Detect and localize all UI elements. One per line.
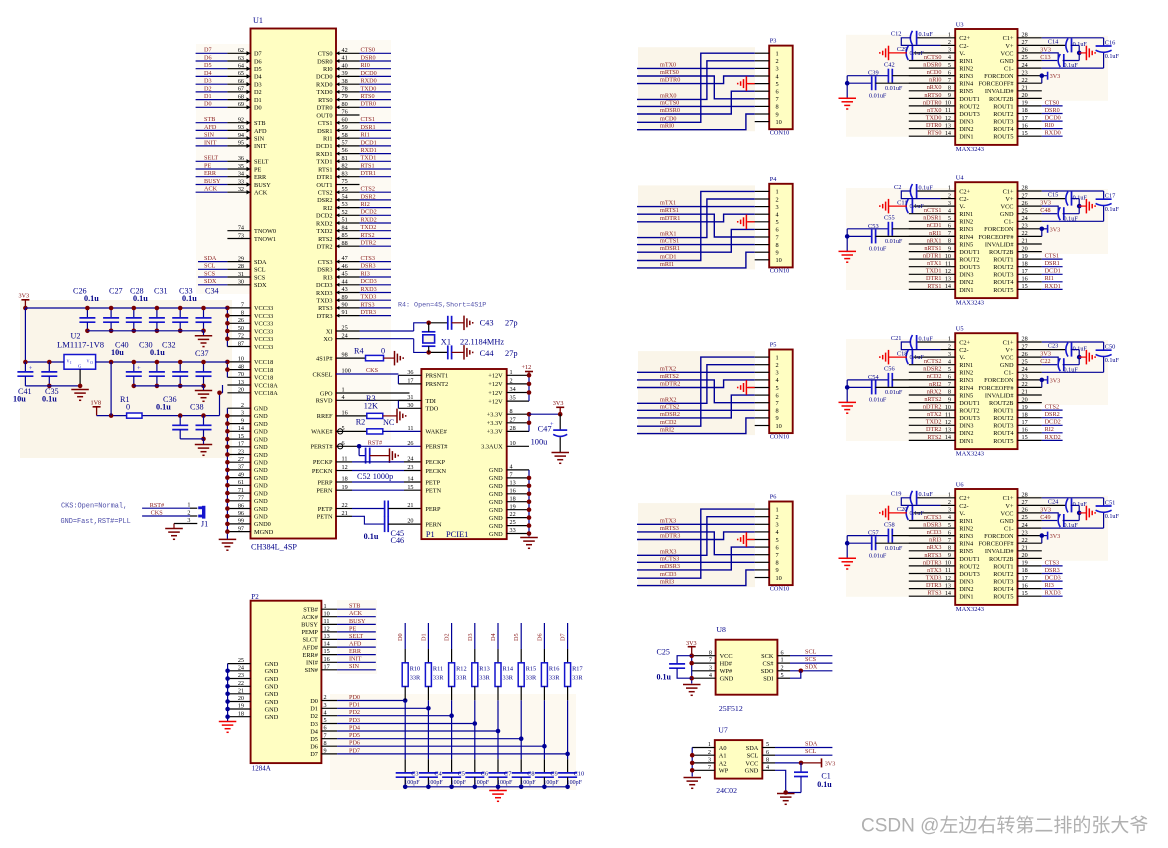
wire TDI-TDO tie [397, 401, 399, 409]
wire J1 pin2 / net CKS [142, 509, 197, 516]
svg-text:0.1uF: 0.1uF [910, 354, 925, 361]
capacitor C3 100pF [396, 759, 421, 789]
wire U3 C1 loop [1018, 38, 1104, 68]
svg-text:1: 1 [324, 603, 327, 610]
capacitor C17 0.1uF [1096, 193, 1120, 214]
capacitor C49 0.1uF [1018, 514, 1080, 529]
P6 pin 4 [755, 529, 780, 536]
IC U3 MAX3243 body [955, 21, 1017, 153]
P1 pin 24 PECKP [407, 456, 445, 467]
capacitor C47 100u [531, 414, 568, 452]
svg-text:21: 21 [238, 687, 244, 694]
svg-text:7: 7 [324, 732, 327, 739]
svg-text:3: 3 [708, 757, 711, 764]
svg-text:10: 10 [776, 575, 782, 582]
svg-text:ROUT2B: ROUT2B [989, 400, 1014, 407]
svg-text:DTR0: DTR0 [361, 101, 376, 108]
wire mRTS2 to P5.7 / net mRTS2 [637, 373, 755, 403]
wire U4 vcc node [1077, 199, 1087, 214]
svg-text:DTR0: DTR0 [317, 105, 333, 112]
svg-text:14: 14 [238, 425, 244, 432]
svg-text:D2: D2 [204, 85, 212, 92]
svg-text:3V3: 3V3 [1050, 226, 1061, 233]
P6 pin 7 [755, 552, 779, 559]
svg-text:RTS0: RTS0 [318, 97, 332, 104]
svg-text:mDSR1: mDSR1 [660, 245, 680, 252]
svg-text:PETP: PETP [425, 479, 440, 486]
wire +3.3V bus [527, 412, 563, 431]
U5 pin 3 wire / net DCD2 [1018, 419, 1063, 426]
svg-text:0.1uF: 0.1uF [1073, 194, 1088, 201]
svg-text:C18: C18 [897, 350, 908, 357]
svg-text:28: 28 [238, 263, 244, 270]
svg-text:C8: C8 [527, 770, 534, 777]
U6 pin 4 wire / net DSR3 [1018, 567, 1063, 574]
svg-text:INIT: INIT [349, 656, 362, 663]
svg-text:23: 23 [238, 448, 244, 455]
ground C11 [880, 199, 889, 214]
svg-text:C58: C58 [884, 521, 895, 528]
P5 pin 7 [755, 400, 779, 407]
power +12 [522, 364, 534, 375]
svg-text:D5: D5 [254, 66, 262, 73]
svg-text:D2: D2 [254, 89, 262, 96]
svg-text:4: 4 [709, 672, 712, 679]
svg-text:16: 16 [510, 487, 516, 494]
U1 pin 60 CTS1 / net CTS1 [318, 116, 391, 127]
U1 pin 24 XO [323, 332, 413, 343]
svg-text:1: 1 [510, 369, 513, 376]
U3 right pin numbers [1022, 32, 1028, 137]
svg-text:GND: GND [489, 467, 503, 474]
svg-text:0.1u: 0.1u [42, 395, 57, 404]
svg-text:SIN: SIN [204, 132, 215, 139]
svg-text:60: 60 [342, 116, 348, 123]
svg-text:RI2: RI2 [1045, 426, 1054, 433]
capacitor C51 0.1uF [1096, 500, 1120, 521]
svg-text:3: 3 [776, 204, 779, 211]
svg-text:C47: C47 [538, 425, 552, 434]
net label D6 vertical [536, 633, 543, 641]
svg-text:1: 1 [776, 506, 779, 513]
capacitor C50 0.1uF [1096, 344, 1120, 365]
svg-text:D4: D4 [254, 74, 263, 81]
svg-text:0.1uF: 0.1uF [1105, 53, 1120, 60]
U5 left net labels [923, 358, 942, 441]
U1 pin 14 GND [227, 425, 268, 436]
P3 pin 4 [755, 73, 780, 80]
svg-text:10: 10 [510, 440, 516, 447]
svg-text:3V3: 3V3 [686, 640, 697, 647]
svg-text:VCC: VCC [1001, 50, 1014, 57]
svg-text:SDA: SDA [746, 745, 759, 752]
capacitor C20 0.1uF [889, 506, 956, 520]
svg-text:nRTS1: nRTS1 [924, 245, 941, 252]
svg-text:U7: U7 [718, 725, 728, 734]
ground C37 rail [195, 391, 212, 402]
svg-text:C57: C57 [868, 530, 879, 537]
svg-text:C1-: C1- [1004, 219, 1013, 226]
svg-text:X1: X1 [441, 337, 451, 346]
ground U7 C1 [777, 794, 795, 805]
svg-text:C2-: C2- [959, 43, 968, 50]
svg-text:CKSEL: CKSEL [313, 371, 333, 378]
svg-text:27p: 27p [505, 349, 518, 358]
P5 pin 8 [755, 408, 779, 415]
svg-text:37: 37 [238, 464, 244, 471]
svg-text:33R: 33R [410, 675, 421, 682]
U1 pin 7 VCC33 [227, 302, 273, 313]
svg-text:DSR0: DSR0 [361, 54, 376, 61]
P4 pin 2 [755, 196, 779, 203]
svg-text:ACK: ACK [349, 610, 363, 617]
svg-text:J1: J1 [201, 520, 208, 529]
svg-text:DOUT3: DOUT3 [959, 111, 980, 118]
svg-text:CKS: CKS [366, 367, 379, 374]
svg-text:SDA: SDA [204, 255, 217, 262]
P1 pin 20 PERN [407, 518, 442, 529]
U1 pin 19 PERN [316, 484, 352, 495]
svg-text:3V3: 3V3 [1050, 533, 1061, 540]
U8 pin2 SDO / net SDX [777, 664, 832, 674]
svg-text:83: 83 [342, 170, 348, 177]
svg-text:C56: C56 [884, 366, 895, 373]
wire RST# / net RST# [357, 439, 422, 448]
svg-text:ROUT2: ROUT2 [959, 103, 979, 110]
svg-text:mTX1: mTX1 [660, 200, 676, 207]
svg-text:30: 30 [238, 279, 244, 286]
svg-text:FORCEON: FORCEON [984, 533, 1014, 540]
svg-text:2: 2 [776, 514, 779, 521]
P1 pin 36 PRSNT1 [398, 369, 448, 380]
U1 pin 41 DSR0 / net DSR0 [317, 54, 391, 65]
capacitor C36 0.1u [156, 395, 188, 439]
svg-text:8: 8 [776, 408, 779, 415]
svg-text:DOUT3: DOUT3 [959, 571, 980, 578]
svg-text:C49: C49 [1040, 514, 1050, 521]
svg-text:GND: GND [254, 444, 268, 451]
P5 pin 5 [748, 385, 779, 392]
U1 pin 100 CKSEL / net CKS [313, 367, 399, 378]
U1 pin 44 DCD3 / net DCD3 [316, 278, 391, 289]
U6 left pin wires [909, 521, 955, 597]
wire mRTS3 to P6.7 / net mRTS3 [637, 525, 755, 555]
P2 pin 5 D3 / net PD3 [310, 717, 477, 728]
svg-text:GND: GND [745, 768, 759, 775]
svg-text:ACK: ACK [254, 190, 268, 197]
P1 pin 28 +3.3V [487, 425, 529, 436]
svg-text:75: 75 [342, 178, 348, 185]
svg-text:GND: GND [254, 506, 268, 513]
svg-text:C9: C9 [550, 770, 557, 777]
svg-text:C24: C24 [1048, 498, 1059, 505]
wire C3-C10 gnd rail [405, 787, 567, 791]
svg-text:72: 72 [238, 333, 244, 340]
svg-text:TNOW1: TNOW1 [254, 236, 276, 243]
svg-text:VCC: VCC [1001, 355, 1014, 362]
U1 pin 15 GND [227, 433, 268, 444]
ground C42/C39 [839, 98, 857, 109]
P3 pin 1 [755, 51, 779, 58]
svg-text:1: 1 [781, 657, 784, 664]
svg-text:nTX3: nTX3 [927, 567, 941, 574]
U1 pin 29 SDA / net SDA [198, 255, 267, 266]
svg-text:P4: P4 [770, 176, 778, 183]
P1 pin 23 PECKN [407, 464, 446, 475]
svg-text:87: 87 [238, 340, 244, 347]
svg-text:23: 23 [238, 672, 244, 679]
svg-text:34: 34 [238, 171, 244, 178]
svg-text:ROUT1: ROUT1 [993, 408, 1013, 415]
P4 pin 8 [755, 242, 779, 249]
svg-text:RIN2: RIN2 [959, 370, 973, 377]
svg-text:PECKN: PECKN [425, 468, 446, 475]
svg-text:34: 34 [510, 386, 516, 393]
svg-text:U3: U3 [956, 21, 964, 28]
svg-text:27: 27 [510, 416, 516, 423]
capacitor C35 0.1u [41, 362, 58, 404]
svg-text:C54: C54 [868, 374, 879, 381]
U1 pin 49 GND [227, 471, 268, 482]
wire mDTR3 to P6.4 / net mDTR3 [637, 532, 755, 540]
svg-text:19: 19 [342, 484, 348, 491]
ground C38 rail [195, 445, 212, 456]
svg-text:GND: GND [720, 676, 734, 683]
svg-text:RI0: RI0 [323, 66, 332, 73]
svg-text:C1+: C1+ [1003, 35, 1014, 42]
svg-text:nRTS3: nRTS3 [924, 552, 941, 559]
U1 pin 46 DSR3 / net DSR3 [317, 263, 391, 274]
connector P1 PCIE1 body [421, 369, 506, 539]
U3 pin 3 wire / net DCD0 [1018, 115, 1063, 122]
P1 pin 22 GND [489, 511, 529, 522]
svg-text:2: 2 [241, 402, 244, 409]
svg-text:6: 6 [776, 544, 779, 551]
ground C55/C53 [839, 251, 857, 262]
svg-text:ROUT3: ROUT3 [993, 423, 1013, 430]
svg-text:R12: R12 [456, 666, 467, 673]
svg-text:DCD2: DCD2 [316, 213, 332, 220]
svg-text:OUT1: OUT1 [316, 182, 332, 189]
svg-text:TXD0: TXD0 [316, 89, 332, 96]
capacitor C58 0.01uF [847, 521, 955, 552]
svg-text:19: 19 [510, 503, 516, 510]
capacitor C25 0.1u [657, 648, 692, 682]
svg-text:DOUT3: DOUT3 [959, 264, 980, 271]
svg-text:CTS1: CTS1 [361, 116, 375, 123]
svg-text:PECKP: PECKP [425, 459, 445, 466]
svg-text:INVALID#: INVALID# [985, 88, 1014, 95]
U6 pin 5 wire / net CTS3 [1018, 559, 1063, 566]
wire XI node [414, 321, 448, 332]
svg-text:90: 90 [342, 302, 348, 309]
U1 pin 57 DCD1 / net DCD1 [316, 139, 391, 150]
svg-text:D1: D1 [310, 706, 318, 713]
U1 pin 6 PERST# [310, 440, 359, 451]
svg-text:RTS0: RTS0 [927, 130, 941, 137]
svg-text:0.1u: 0.1u [657, 672, 672, 681]
svg-text:1V8: 1V8 [91, 399, 102, 406]
capacitor C56 0.01uF [847, 366, 955, 397]
svg-text:RXD0: RXD0 [361, 78, 377, 85]
svg-text:100pF: 100pF [567, 780, 583, 786]
svg-text:ROUT2: ROUT2 [993, 111, 1013, 118]
svg-text:GND: GND [254, 467, 268, 474]
wire mRX2 to P5.2 / net mRX2 [637, 365, 755, 404]
svg-text:13: 13 [324, 633, 330, 640]
svg-text:D5: D5 [310, 736, 318, 743]
svg-text:D1: D1 [254, 97, 262, 104]
svg-text:16: 16 [342, 410, 348, 417]
regulator U2 LM1117-1V8 [57, 331, 104, 369]
svg-text:MAX3243: MAX3243 [956, 450, 984, 457]
svg-text:INIT: INIT [254, 143, 267, 150]
svg-text:0.1u: 0.1u [817, 780, 832, 789]
U1 pin 42 CTS0 / net CTS0 [318, 47, 391, 58]
svg-text:P1: P1 [426, 530, 435, 539]
power 3V3 top-left [19, 292, 30, 310]
svg-text:C50: C50 [1105, 344, 1116, 351]
ground U4 right [1086, 199, 1095, 214]
svg-text:PERST#: PERST# [425, 444, 448, 451]
svg-text:CKS: CKS [151, 510, 164, 517]
U1 pin 16 RREF [317, 410, 367, 421]
svg-text:nCTS3: nCTS3 [924, 514, 942, 521]
svg-text:SCS: SCS [254, 274, 266, 281]
U1 pin 79 RTS0 / net RTS0 [318, 93, 391, 104]
U3 left net labels [923, 54, 942, 137]
svg-text:RXD3: RXD3 [316, 290, 332, 297]
svg-text:nRX0: nRX0 [927, 84, 942, 91]
svg-text:D7: D7 [560, 633, 567, 641]
svg-text:nDTR1: nDTR1 [923, 253, 942, 260]
resistor R17 33R [565, 623, 584, 759]
U5 pin 1 wire / net RXD2 [1018, 434, 1063, 441]
svg-text:91: 91 [342, 309, 348, 316]
svg-text:GND: GND [489, 483, 503, 490]
svg-text:INI#: INI# [306, 660, 319, 667]
svg-text:ROUT5: ROUT5 [993, 438, 1013, 445]
P2 pin 22 GND [228, 680, 279, 691]
svg-text:C32: C32 [162, 340, 176, 349]
svg-text:FORCEON: FORCEON [984, 226, 1014, 233]
svg-text:33R: 33R [479, 675, 490, 682]
svg-text:C13: C13 [1040, 54, 1050, 61]
wire mTX2 to P5.3 / net mTX2 [637, 365, 755, 372]
svg-text:C51: C51 [1105, 500, 1116, 507]
svg-text:7: 7 [708, 764, 711, 771]
U1 pin 32 ACK / net ACK [196, 186, 268, 197]
svg-text:C2+: C2+ [959, 495, 970, 502]
U1 pin 66 D3 / net D3 [196, 78, 262, 89]
wire mRX0 to P3.2 / net mRX0 [637, 61, 755, 100]
svg-text:SDA: SDA [254, 259, 267, 266]
svg-text:FORCEOFF#: FORCEOFF# [979, 81, 1015, 88]
svg-text:mCTS1: mCTS1 [660, 238, 679, 245]
svg-text:GND: GND [254, 436, 268, 443]
P1 pin 16 GND [489, 487, 529, 498]
U1 pin 51 RXD2 / net RXD2 [316, 216, 391, 227]
svg-text:48: 48 [238, 363, 244, 370]
svg-text:D5: D5 [204, 62, 212, 69]
svg-text:33R: 33R [456, 675, 467, 682]
svg-text:C7: C7 [504, 770, 511, 777]
svg-text:GND: GND [254, 483, 268, 490]
svg-text:33R: 33R [526, 675, 537, 682]
svg-text:D4: D4 [310, 728, 319, 735]
svg-text:0.1u: 0.1u [150, 348, 165, 357]
svg-text:9: 9 [776, 567, 779, 574]
wire mCTS2 to P5.8 / net mCTS2 [637, 403, 755, 410]
svg-text:mDTR1: mDTR1 [660, 215, 680, 222]
svg-text:DSR3: DSR3 [361, 263, 376, 270]
svg-text:PERP: PERP [317, 479, 333, 486]
P2 pin 9 D7 / net PD7 [310, 747, 570, 758]
net label D4 vertical [490, 633, 497, 641]
P6 pin 10 [755, 575, 782, 582]
svg-text:RIN5: RIN5 [959, 88, 973, 95]
U7 pin6 SCL / net SCL [762, 748, 832, 756]
wire mTX0 to P3.3 / net mTX0 [637, 61, 755, 68]
P1 pin 17 PRSNT2 [398, 378, 448, 389]
capacitor C19 0.1uF [891, 491, 955, 506]
svg-text:0.1uF: 0.1uF [1064, 366, 1079, 373]
svg-text:ERR: ERR [349, 648, 362, 655]
svg-text:DTR1: DTR1 [926, 275, 941, 282]
svg-text:10: 10 [776, 423, 782, 430]
svg-text:5: 5 [776, 81, 779, 88]
U1 pin 94 SIN / net SIN [196, 132, 265, 143]
wire VCC18A link [217, 385, 222, 416]
ground U3 right [1086, 46, 1095, 61]
P5 pin 3 [755, 370, 779, 377]
capacitor C4 100pF [419, 759, 444, 789]
svg-text:C1+: C1+ [1003, 188, 1014, 195]
svg-text:DIN2: DIN2 [959, 279, 973, 286]
power 3V3 U8 [686, 640, 697, 656]
ground U6 right [1086, 506, 1095, 521]
svg-text:26: 26 [238, 317, 244, 324]
svg-text:C15: C15 [1048, 192, 1059, 199]
svg-text:2: 2 [776, 196, 779, 203]
svg-text:RREF: RREF [317, 413, 333, 420]
svg-text:PERST#: PERST# [310, 444, 333, 451]
U1 pin 55 CTS2 / net CTS2 [318, 186, 391, 197]
svg-text:C2+: C2+ [959, 188, 970, 195]
svg-text:9: 9 [776, 415, 779, 422]
svg-text:VCC18A: VCC18A [254, 390, 278, 397]
svg-text:+: + [29, 365, 33, 372]
wire mTX3 to P6.3 / net mTX3 [637, 517, 755, 524]
wire mDSR1 to P4.6 / net mDSR1 [637, 229, 755, 252]
capacitor C28 0.1u [126, 306, 142, 333]
svg-text:0.01uF: 0.01uF [869, 397, 887, 404]
svg-text:+12V: +12V [488, 381, 503, 388]
svg-text:CTS1: CTS1 [1045, 253, 1059, 260]
net label D5 vertical [513, 633, 520, 641]
svg-text:PD0: PD0 [349, 694, 360, 701]
svg-text:D0: D0 [254, 105, 262, 112]
svg-text:mRX1: mRX1 [660, 231, 677, 238]
svg-text:ROUT3: ROUT3 [993, 119, 1013, 126]
svg-text:V+: V+ [1005, 43, 1014, 50]
capacitor C52 1000p [357, 446, 393, 481]
ground R3 [397, 409, 406, 424]
U4 pin 3 wire / net DCD1 [1018, 268, 1063, 275]
svg-text:INVALID#: INVALID# [985, 392, 1014, 399]
wire mRTS1 to P4.7 / net mRTS1 [637, 207, 755, 237]
wire mDTR2 to P5.4 / net mDTR2 [637, 380, 755, 388]
